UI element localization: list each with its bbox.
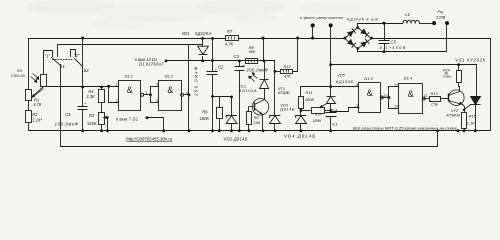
photoresistor arrows (31, 74, 39, 83)
svg-text:D1.1: D1.1 (125, 74, 133, 79)
wire VD4 bottom (300, 124, 302, 131)
svg-text:10К: 10К (254, 120, 261, 125)
svg-text:1: 1 (116, 83, 118, 87)
junction at 231.5,96.9 (230, 96, 233, 99)
note box (353, 126, 458, 131)
svg-text:180К: 180К (305, 97, 314, 102)
junction at 301,110.5 (300, 109, 303, 112)
wire VT1 emitter to ground (262, 115, 264, 131)
rectifier bridge KD202K x4 (345, 28, 372, 49)
svg-text:R12: R12 (315, 111, 323, 116)
resistor R12 body (trimmer, horizontal) (312, 108, 325, 114)
wire R3 bottom to ground (101, 125, 103, 131)
junction at 108.7,86.2 (107, 85, 110, 88)
wire R12 left stub (301, 110, 312, 112)
resistor R2 body (26, 111, 32, 123)
junction at 82.7,130.8 (81, 129, 84, 132)
junction at 147,117.7 (146, 116, 149, 119)
svg-text:0,5Вт: 0,5Вт (443, 74, 452, 78)
transistor VT2 KT940A (449, 90, 465, 106)
capacitor C5 (379, 41, 390, 44)
junction at 263,130.8 (262, 129, 265, 132)
svg-text:R13: R13 (431, 91, 439, 96)
wire D1.3 pin9 (331, 108, 360, 112)
junction at 202.5,38.5 (201, 37, 204, 40)
wire R10 right stub to bus (293, 39, 298, 72)
svg-text:0,1*400В: 0,1*400В (380, 45, 406, 50)
wire R2 to ground bus (28, 123, 30, 131)
wire R9 column (248, 108, 250, 112)
wire enlarger terminal 2 / VD5 / C4 column (330, 26, 332, 97)
zener VD4 D814B (296, 116, 307, 124)
svg-text:R3: R3 (89, 113, 95, 118)
bridge corner junctions (344, 37, 347, 40)
capacitor C2 (207, 72, 218, 75)
photoresistor wiper diagonal to R1 (34, 87, 44, 96)
wire sense line to thyristor (331, 64, 477, 66)
svg-text:к выв 7 D1: к выв 7 D1 (116, 117, 138, 122)
junction at 82.7,38 (81, 37, 84, 40)
svg-text:3: 3 (145, 91, 147, 95)
wire mains line top (358, 24, 403, 28)
resistor R13 body (horizontal) (430, 97, 441, 102)
wire VS1 anode (476, 65, 478, 97)
svg-text:КД202К 4 шт: КД202К 4 шт (347, 18, 378, 22)
svg-text:С3: С3 (234, 54, 240, 59)
LED arrows (249, 73, 258, 82)
svg-text:КД105А: КД105А (195, 31, 211, 36)
svg-text:D1.4: D1.4 (404, 76, 413, 81)
wire bus to supply line vertical (263, 39, 265, 61)
wire R3 wiper to ground (105, 118, 108, 131)
switch S1 arm (52, 58, 61, 66)
svg-text:200,0мкФ: 200,0мкФ (246, 67, 269, 72)
LED HL1 AL102A (260, 80, 269, 89)
junction at 212.5,38.5 (211, 37, 214, 40)
wire pin14 supply line (167, 60, 263, 62)
svg-text:R10: R10 (284, 64, 292, 69)
svg-text:100,0мкФ: 100,0мкФ (55, 122, 79, 127)
transistor VT1 KT315B (249, 99, 269, 116)
switch S2 arm (75, 59, 83, 67)
junction gate-emitter node (463, 109, 465, 111)
svg-text:R7: R7 (227, 29, 233, 34)
wire VD3 column (274, 61, 276, 72)
svg-text:160К: 160К (200, 116, 210, 121)
wire C2 column (212, 39, 214, 72)
svg-text:D1.2: D1.2 (165, 74, 174, 79)
wire mains terminal2 drop (446, 24, 448, 52)
junction at 189,130.8 (188, 129, 191, 132)
svg-text:S1: S1 (60, 64, 65, 69)
svg-text:&: & (167, 85, 173, 95)
junction at 239.3,130.8 (238, 129, 241, 132)
R1 wiper arrow from photoresistor (32, 89, 327, 119)
svg-text:6: 6 (156, 99, 158, 103)
svg-text:1,1К: 1,1К (467, 121, 475, 126)
svg-text:180К: 180К (312, 118, 321, 123)
svg-text:КТ940А: КТ940А (447, 112, 461, 117)
junction at 475.3,130.8 (474, 129, 477, 132)
svg-text:к фото увеличителю: к фото увеличителю (300, 16, 343, 20)
junction at 330.7,110.5 (329, 109, 332, 112)
svg-text:D1.3: D1.3 (364, 76, 373, 81)
junction at 464,130.8 (463, 129, 466, 132)
logic gate D1.2 (159, 81, 184, 111)
junction at 383.9,23.1 (382, 22, 385, 25)
R12 wiper arrow (321, 104, 327, 108)
zener VD3 D814B (270, 116, 281, 124)
wire top bus right segment to bridge (239, 38, 345, 40)
wire R1-R2 link (28, 101, 30, 111)
resistor R11 body (299, 97, 304, 109)
wire VS1 gate (465, 105, 471, 110)
wire pin7 annotation link (147, 118, 164, 131)
svg-text:8: 8 (356, 83, 358, 87)
junction at 249,130.8 (248, 129, 251, 132)
svg-text:L1: L1 (405, 12, 410, 17)
wire right edge vertical (490, 39, 492, 131)
wire D1.1 pin1-pin2 tie (109, 87, 119, 103)
wire VT2 collector to R14 (459, 83, 460, 92)
wire S2 pole column from bus to C1 to ground (82, 39, 84, 67)
resistor R10 body (horizontal) (281, 70, 293, 74)
junction at 264,60.9 (263, 60, 266, 63)
svg-text:47К: 47К (284, 73, 291, 78)
thyristor VS1 KU202K (471, 97, 481, 105)
svg-text:Рщ: Рщ (437, 9, 444, 14)
zener VD2 D814B (226, 116, 237, 124)
wire timing node horizontal to D1.1 input (44, 86, 119, 88)
svg-text:"2": "2" (74, 53, 80, 58)
photoresistor FZ SF3-2A body (41, 75, 47, 87)
svg-text:R11: R11 (306, 90, 313, 95)
wire C3 column (239, 61, 241, 67)
junction at 212.5,96.5 (211, 95, 214, 98)
inductor L1 (403, 20, 419, 23)
diode VD1 KD105A (198, 46, 209, 54)
junction at 384,51.6 (383, 50, 386, 53)
svg-text:VD4 Д814Б: VD4 Д814Б (284, 134, 315, 139)
junction at 107.5,117.5 (106, 116, 108, 118)
svg-text:D1 К176ЛА7: D1 К176ЛА7 (139, 62, 164, 67)
svg-text:"1": "1" (45, 53, 51, 58)
junction at 150.5,94.8 (149, 93, 152, 96)
resistor R7 body (horizontal, on top bus) (226, 36, 239, 41)
bridge diode cathode bars (352, 28, 369, 47)
switch S2 fixed contacts bridged (71, 50, 76, 57)
svg-text:VD5: VD5 (337, 72, 345, 77)
wire VD1 column (202, 39, 204, 47)
wire long vertical from line A area down (188, 45, 190, 131)
junction at 330.7,25.4 (329, 23, 333, 27)
junction at 275,130.8 (274, 129, 277, 132)
junction at 312.7,38 (311, 37, 314, 40)
svg-text:9: 9 (356, 104, 358, 108)
svg-text:5: 5 (156, 83, 158, 87)
wire R15 bottom (464, 129, 466, 131)
wire bridge to right edge (372, 38, 491, 40)
junction at 202.9,60.9 (202, 60, 205, 63)
bridge diode lower-right (360, 41, 367, 47)
wire R10 left stub (275, 71, 281, 73)
wire bridge bottom to C5 line (358, 49, 447, 52)
junction at 212.5,60.5 (211, 59, 214, 62)
svg-text:VD2 Д814Б: VD2 Д814Б (223, 137, 247, 142)
junction at 458,130.8 (457, 129, 460, 132)
junction at 189,94.8 (188, 93, 191, 96)
svg-text:11: 11 (424, 94, 428, 98)
wire enlarger terminal 1 (312, 26, 314, 39)
wire photoresistor column (43, 51, 45, 75)
svg-text:10: 10 (384, 94, 388, 98)
R3 wiper arrow (105, 117, 108, 119)
junction at 212.5,130.8 (211, 129, 214, 132)
wire line A from S1 to VD1 (59, 44, 203, 46)
wire lower return riser (437, 131, 439, 147)
junction at 297.7,38 (296, 37, 299, 40)
resistor R1 (trimmer) body (26, 90, 32, 101)
wire VT2 emitter to R15 (463, 105, 465, 113)
svg-text:&: & (127, 85, 133, 95)
junction at 231.5,130.8 (230, 129, 233, 132)
svg-text:4: 4 (186, 91, 188, 95)
wire ground bus (29, 130, 491, 132)
wire R12 right stub (325, 110, 331, 112)
wire left rail vertical (28, 39, 30, 90)
junction at 263,38 (262, 37, 265, 40)
resistor R9 body (247, 112, 252, 125)
junction at 330.7,130.8 (329, 129, 332, 132)
junction at 101.5,130.8 (100, 129, 103, 132)
svg-text:С2: С2 (218, 64, 224, 69)
wire R14 top stub (458, 65, 460, 71)
resistor R3 (variable) body (99, 113, 105, 125)
scan smudges (25, 0, 360, 30)
svg-text:7,5к: 7,5к (431, 102, 438, 107)
resistor R14 body (457, 71, 462, 83)
logic gate D1.3 (359, 83, 384, 113)
url underline (127, 141, 173, 143)
svg-text:1,1К*: 1,1К* (32, 118, 42, 123)
wire R11 to VD4 (300, 109, 302, 116)
resistor R15 body (462, 113, 467, 129)
junction at 82.7,87 (81, 86, 84, 89)
wire D1.3 output to D1.4 inputs (382, 97, 389, 99)
wire lower return horizontal (61, 146, 438, 148)
junction at 101.5,87 (100, 86, 103, 89)
svg-text:http://209702455.3dn.ru: http://209702455.3dn.ru (126, 136, 173, 141)
svg-text:VS1 КУ202К: VS1 КУ202К (455, 57, 485, 62)
svg-text:Все резисторы МЛТ-0,25 кроме у: Все резисторы МЛТ-0,25 кроме указанных н… (353, 126, 458, 131)
junction at 434.1,23.1 (432, 21, 436, 25)
svg-text:200,0мкФ: 200,0мкФ (193, 66, 198, 97)
svg-text:КД105Б: КД105Б (336, 79, 354, 84)
capacitor C1 (78, 107, 88, 110)
wire top bus left segment (29, 38, 226, 40)
logic gate D1.4 (399, 84, 426, 114)
wire VD2 column (231, 97, 233, 116)
svg-text:13: 13 (394, 104, 398, 108)
wire R6 stubs (219, 97, 221, 108)
bridge diode lower-left (347, 39, 354, 45)
wire R6/VD2 node branch (213, 96, 232, 98)
junction at 219.3,130.8 (218, 129, 221, 132)
svg-text:КТ315Б: КТ315Б (278, 90, 290, 95)
junction at 107.5,130.8 (106, 129, 109, 132)
svg-text:4,7К: 4,7К (33, 102, 42, 107)
wire R13 to VT2 base (441, 98, 449, 100)
bridge diode upper-left (347, 31, 354, 37)
junction at 389,97.5 (388, 96, 391, 99)
gate ampersands (127, 85, 414, 99)
switch coupling dashed link (53, 59, 73, 61)
svg-text:С1: С1 (65, 112, 70, 117)
svg-text:&: & (367, 88, 373, 98)
wire R4 top stub (101, 87, 103, 90)
wire D1.4 output to R13 (424, 98, 430, 100)
svg-text:СФ3-2А: СФ3-2А (11, 74, 25, 78)
svg-text:ФЗ: ФЗ (17, 69, 23, 73)
capacitor C3 (235, 67, 245, 71)
svg-text:4,7К: 4,7К (225, 42, 234, 47)
svg-text:R15: R15 (469, 113, 477, 118)
svg-text:R2: R2 (32, 112, 38, 117)
wire D1.2 output to long vertical (184, 94, 189, 96)
logic gate D1.1 (119, 81, 144, 111)
gate pin numbers (115, 83, 428, 109)
junction at 458.6,64.6 (457, 63, 460, 66)
svg-text:2: 2 (115, 99, 118, 103)
bridge diode upper-right (360, 28, 367, 34)
wire LED column (264, 61, 266, 80)
junction at 239.3,60.9 (238, 60, 241, 63)
junction at 330.7,86.6 (329, 85, 332, 88)
wire VS1 cathode (475, 105, 477, 131)
capacitor C4 (326, 113, 337, 117)
wire D1.3 pin8 (331, 86, 359, 88)
diode VD5 KD105B (327, 97, 336, 104)
svg-text:&: & (408, 89, 414, 99)
wire D1.1 output to D1.2 inputs (144, 94, 151, 96)
junction at 301,130.8 (300, 129, 303, 132)
svg-text:С4: С4 (332, 108, 338, 113)
svg-text:R6: R6 (202, 109, 208, 114)
svg-text:0,1: 0,1 (332, 121, 337, 126)
svg-text:220В: 220В (435, 15, 446, 20)
svg-text:12: 12 (394, 83, 398, 87)
junction at 163.7,130.8 (162, 129, 165, 132)
wire R8 right to LED node (258, 60, 275, 62)
resistor R6 body (217, 108, 223, 119)
junction at 437.5,130.8 (436, 129, 439, 132)
svg-text:S2: S2 (84, 68, 90, 73)
svg-text:2,3К: 2,3К (85, 94, 95, 99)
resistor R4 body (99, 90, 105, 103)
svg-text:510К: 510К (87, 121, 97, 126)
wire S1 pole return down (60, 65, 62, 147)
svg-text:VD1: VD1 (182, 31, 190, 36)
svg-text:С5: С5 (391, 39, 397, 44)
wire R11 branch (301, 87, 331, 97)
resistor R8 body (horizontal) (246, 59, 258, 64)
junction at 330.7,64.6 (329, 63, 332, 66)
wire R4-R3 link (101, 103, 103, 113)
wire photoresistor feed (44, 51, 53, 57)
wire C5 column (384, 24, 386, 41)
junction at 166,60.9 (165, 60, 168, 63)
svg-text:68К: 68К (249, 49, 256, 54)
svg-text:АЛ102А: АЛ102А (238, 88, 257, 93)
junction at 447,23.1 (445, 21, 449, 25)
switch S1 fixed contact right (57, 45, 59, 57)
junction at 275,71.4 (274, 70, 277, 73)
svg-text:Д814Б: Д814Б (279, 106, 294, 111)
junction at 312.7,25.4 (311, 23, 315, 27)
